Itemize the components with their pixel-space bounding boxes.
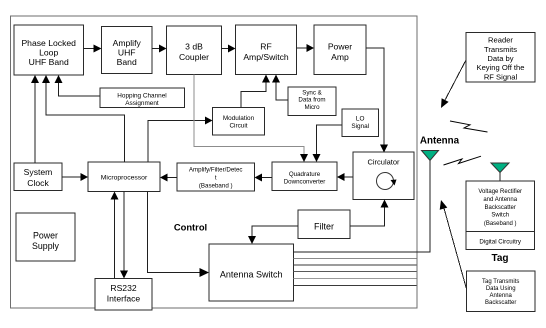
wire Modulation Circuit to RF Amp/Switch	[241, 75, 270, 108]
block Filter	[298, 210, 350, 239]
label Antenna	[420, 136, 460, 147]
svg-text:Switch: Switch	[491, 213, 509, 219]
svg-text:Control: Control	[174, 222, 207, 233]
svg-text:Filter: Filter	[314, 222, 334, 232]
svg-text:Antenna: Antenna	[490, 293, 513, 299]
wire Antenna Switch to Antenna feed	[294, 161, 431, 253]
svg-text:Sync &: Sync &	[302, 90, 322, 97]
RF wave symbol lower	[444, 156, 482, 165]
svg-text:Amplify: Amplify	[113, 38, 142, 48]
svg-text:Clock: Clock	[27, 178, 49, 188]
antenna symbol tag	[491, 163, 509, 181]
svg-text:Amp: Amp	[331, 52, 349, 62]
block Phase Locked Loop UHF Band	[14, 25, 84, 75]
wire PLL to Amplify	[84, 45, 102, 53]
svg-text:Tag Transmits: Tag Transmits	[482, 279, 519, 285]
svg-text:Tag: Tag	[491, 253, 508, 264]
wire antenna port 5	[294, 278, 417, 280]
svg-text:Antenna: Antenna	[420, 136, 460, 147]
svg-text:Data Using: Data Using	[486, 286, 516, 292]
wire antenna port 2	[294, 258, 417, 260]
block Digital Circuitry	[466, 232, 535, 250]
wire Microprocessor to RS232	[120, 192, 128, 279]
svg-text:(Baseband ): (Baseband )	[484, 221, 517, 227]
svg-text:Power: Power	[328, 42, 352, 52]
block 3 dB Coupler	[167, 26, 222, 75]
svg-text:and Antenna: and Antenna	[483, 197, 517, 203]
note Tag Transmits Data Using Antenna Backscatter	[467, 271, 536, 312]
svg-text:Supply: Supply	[32, 241, 59, 251]
block Sync and Data from Micro	[288, 87, 336, 116]
wire Coupler to Quadrature (LO path)	[194, 75, 308, 163]
wire Microprocessor to Antenna Switch (control)	[148, 192, 210, 278]
block Quadrature Downconverter	[272, 162, 337, 191]
note Reader Transmits Data by Keying Off the RF Signal	[466, 33, 535, 83]
svg-text:Assignment: Assignment	[125, 100, 159, 107]
wire Circulator to Quadrature	[337, 173, 353, 181]
wire antenna port 6	[294, 285, 417, 287]
svg-text:System: System	[24, 167, 53, 177]
block Modulation Circuit	[213, 108, 265, 136]
svg-text:RS232: RS232	[110, 283, 136, 293]
svg-text:3 dB: 3 dB	[185, 42, 203, 52]
wire Filter to Circulator	[350, 200, 389, 227]
svg-text:Quadrature: Quadrature	[289, 171, 321, 178]
wire Microprocessor to PLL	[42, 75, 125, 162]
svg-text:t: t	[215, 175, 217, 182]
svg-text:Coupler: Coupler	[179, 52, 209, 62]
svg-text:Circuit: Circuit	[229, 123, 247, 130]
block Amplify/Filter/Detect (Baseband)	[177, 163, 255, 191]
svg-text:Voltage Rectifier: Voltage Rectifier	[478, 189, 522, 195]
svg-text:RF: RF	[260, 42, 271, 52]
svg-text:Circulator: Circulator	[367, 158, 400, 167]
svg-text:Downconverter: Downconverter	[284, 179, 326, 186]
label Control	[174, 222, 207, 233]
antenna symbol reader	[422, 151, 439, 253]
wire Coupler to RF Amp/Switch	[222, 45, 236, 53]
wire antenna port 4	[294, 271, 417, 273]
svg-text:Microprocessor: Microprocessor	[101, 175, 148, 182]
svg-text:Modulation: Modulation	[223, 115, 255, 122]
svg-text:Data from: Data from	[298, 97, 325, 104]
wire System Clock to PLL	[31, 75, 39, 163]
wire RF Amp/Switch to Power Amp	[297, 44, 315, 52]
wire Quadrature to Amplify/Filter/Detect	[255, 174, 273, 182]
svg-text:Backscatter: Backscatter	[485, 205, 516, 211]
block LO Signal	[342, 109, 379, 137]
wire LO Signal to Quadrature	[313, 125, 343, 162]
svg-text:Reader: Reader	[488, 36, 513, 45]
svg-text:UHF Band: UHF Band	[29, 57, 69, 67]
block Microprocessor	[88, 162, 160, 192]
block Voltage Rectifier and Antenna Backscatter Switch (Baseband)	[466, 181, 535, 232]
RF wave symbol upper	[450, 121, 488, 132]
block Amplify UHF Band	[102, 27, 153, 74]
svg-text:Interface: Interface	[107, 294, 141, 304]
svg-text:Micro: Micro	[304, 104, 320, 111]
block Hopping Channel Assignment	[100, 88, 185, 108]
wire antenna port 3	[294, 264, 417, 266]
block Circulator	[353, 152, 414, 200]
svg-text:Keying Off the: Keying Off the	[477, 63, 525, 72]
wire System Clock to Microprocessor	[62, 173, 88, 181]
svg-text:Amp/Switch: Amp/Switch	[243, 52, 289, 62]
svg-text:Power: Power	[33, 231, 58, 241]
svg-text:Backscatter: Backscatter	[485, 300, 516, 306]
block Power Supply	[16, 213, 75, 261]
wire RS232 to Microprocessor	[111, 192, 119, 279]
block Power Amp	[314, 25, 366, 75]
wire Amplify to Coupler	[152, 45, 167, 53]
svg-text:Hopping Channel: Hopping Channel	[117, 93, 166, 100]
arrow Reader note to antenna	[441, 60, 466, 108]
svg-text:RF Signal: RF Signal	[484, 72, 518, 81]
reader outer border	[11, 16, 418, 308]
svg-text:Loop: Loop	[39, 48, 58, 58]
svg-text:Digital Circuitry: Digital Circuitry	[479, 239, 522, 246]
wire Amplify/Filter/Detect to Microprocessor	[160, 174, 177, 182]
svg-text:(Baseband ): (Baseband )	[199, 183, 233, 190]
wire Sync box to RF Amp/Switch	[272, 75, 288, 101]
block System Clock	[14, 163, 62, 191]
svg-text:Data by: Data by	[487, 54, 513, 63]
svg-text:Phase Locked: Phase Locked	[21, 38, 76, 48]
wire Hopping Channel to PLL	[55, 75, 101, 96]
svg-text:Antenna Switch: Antenna Switch	[220, 270, 283, 280]
svg-text:LO: LO	[356, 116, 365, 123]
wire Power Amp to Circulator	[366, 48, 388, 153]
svg-text:Amplify/Filter/Detec: Amplify/Filter/Detec	[189, 167, 243, 174]
arrow Tag note to antenna	[440, 200, 467, 289]
wire Microprocessor to Modulation Circuit	[148, 117, 213, 163]
svg-text:UHF: UHF	[118, 48, 136, 58]
block Antenna Switch	[209, 244, 294, 301]
svg-text:Transmits: Transmits	[484, 45, 517, 54]
block RF Amp/Switch	[236, 25, 297, 75]
block RS232 Interface	[95, 279, 152, 311]
svg-text:Signal: Signal	[351, 123, 369, 130]
wire Filter to Antenna Switch	[248, 226, 298, 244]
svg-text:Band: Band	[117, 57, 137, 67]
label Tag	[491, 253, 508, 264]
